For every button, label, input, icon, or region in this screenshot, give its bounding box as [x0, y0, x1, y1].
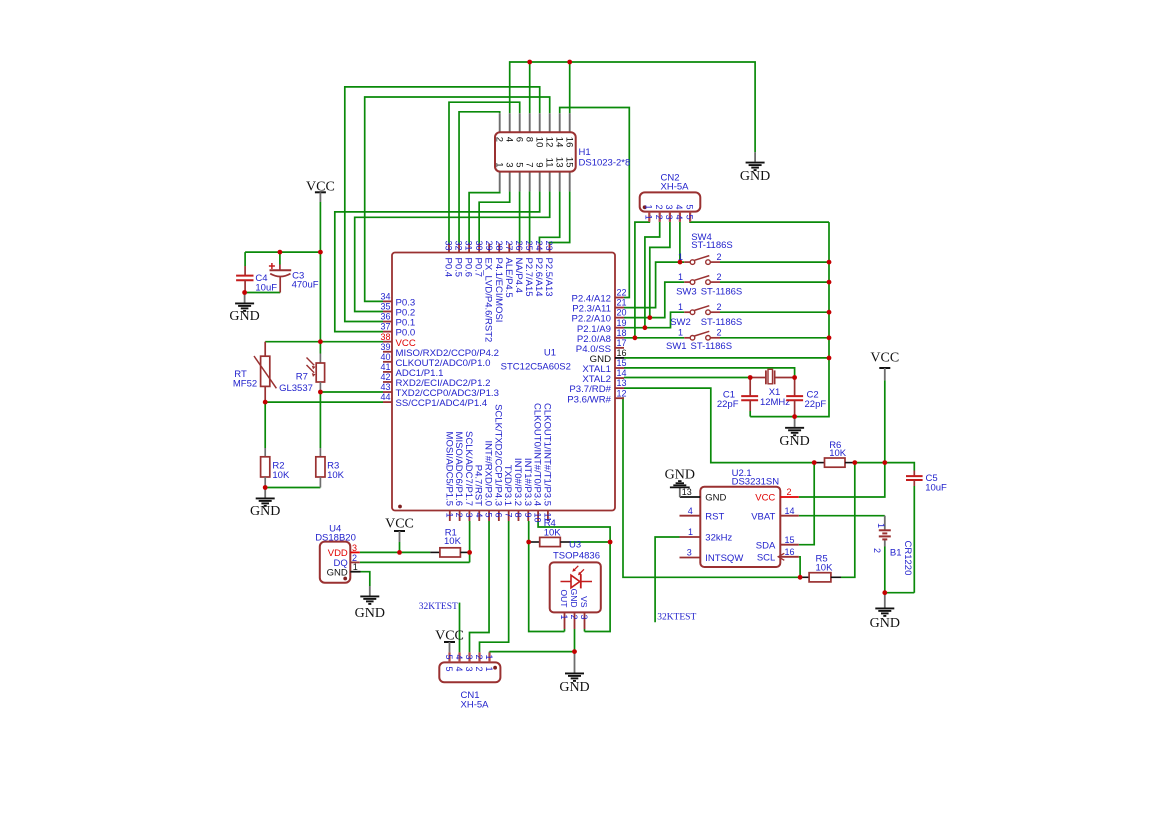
svg-text:9: 9 — [533, 162, 544, 167]
wire SW2 pin2 to bus — [720, 311, 829, 313]
wire VCC rail to C3 C4 — [245, 251, 320, 253]
U1 pin 36 P0.1 — [380, 312, 415, 329]
U1 pin 6 SCLK/TXD2/CCP1/P4.3 — [492, 404, 503, 521]
svg-text:MF52: MF52 — [233, 379, 257, 390]
U1 pin 43 TXD2/CCP0/ADC3/P1.3 — [380, 382, 498, 399]
wire U1 pin10 jog to R4 right — [538, 521, 610, 632]
svg-text:8: 8 — [523, 137, 534, 142]
svg-text:4: 4 — [454, 667, 464, 672]
svg-text:SW3: SW3 — [676, 287, 697, 298]
junction bus SW2 — [827, 310, 832, 315]
svg-text:3: 3 — [687, 548, 692, 558]
wire U4 DQ row — [360, 561, 470, 563]
svg-text:3: 3 — [579, 615, 589, 620]
svg-text:12: 12 — [543, 137, 554, 148]
svg-text:6: 6 — [493, 513, 503, 518]
junction VCC node — [882, 460, 887, 465]
svg-text:14: 14 — [553, 137, 564, 148]
junction R6 right/R5 — [852, 460, 857, 465]
svg-text:XH-5A: XH-5A — [661, 181, 690, 192]
svg-text:TSOP4836: TSOP4836 — [553, 551, 600, 562]
svg-text:31: 31 — [464, 241, 474, 251]
power VCC (CN1) — [435, 628, 464, 652]
svg-text:2: 2 — [716, 272, 721, 282]
ground (R2 R3) — [250, 488, 280, 520]
wire U1 pin20 to SW3 — [624, 282, 684, 318]
svg-text:9: 9 — [523, 513, 533, 518]
wire U1 pin14 XTAL2 to crystal left — [624, 377, 750, 379]
wire U3 GND down to CN1 pin1 node — [574, 629, 576, 652]
resistor R2 10K — [261, 448, 290, 488]
svg-text:4: 4 — [688, 506, 693, 516]
wire H1.9 to U1 pin37 — [335, 191, 540, 331]
svg-text:32: 32 — [454, 241, 464, 251]
U1 pin 42 RXD2/ECI/ADC2/P1.2 — [380, 372, 490, 389]
svg-text:5: 5 — [484, 513, 494, 518]
U2.1 pin 16 SCL — [757, 547, 799, 563]
svg-text:2: 2 — [716, 302, 721, 312]
junction H1.16/VCC rail — [567, 60, 572, 65]
svg-text:SCL: SCL — [757, 552, 775, 563]
U1 pin 18 P2.0/A8 — [577, 328, 627, 345]
wire U1 pin44 row to RT — [265, 401, 383, 403]
wire H1.3 to U1 pin30 — [479, 191, 510, 243]
U1 pin 35 P0.2 — [380, 302, 415, 319]
svg-text:10: 10 — [533, 513, 543, 523]
svg-text:2: 2 — [474, 667, 484, 672]
junction C4/C3 ground — [242, 290, 247, 295]
svg-text:2: 2 — [872, 548, 882, 553]
svg-text:10K: 10K — [444, 536, 462, 547]
wire H1.1 to U1 pin31 — [469, 191, 500, 243]
svg-text:14: 14 — [617, 368, 627, 378]
wire H1.10 to U1 pin36 — [345, 87, 540, 322]
svg-text:10: 10 — [533, 137, 544, 148]
svg-text:3: 3 — [464, 667, 474, 672]
U4 pin 3 VDD — [328, 543, 360, 559]
svg-text:3: 3 — [464, 513, 474, 518]
U2.1 pin 14 VBAT — [751, 506, 799, 522]
svg-text:12: 12 — [617, 388, 627, 398]
svg-text:10uF: 10uF — [255, 282, 277, 293]
H1 pin stubs top — [499, 113, 501, 132]
U1 pin1 marker — [398, 505, 402, 509]
junction R7/pin43 — [318, 390, 323, 395]
wire R2 bottom to R3 bottom — [265, 487, 320, 489]
svg-text:4: 4 — [674, 204, 684, 209]
wire SCL line to U1 pin12 — [623, 398, 800, 577]
resistor R3 10K — [316, 448, 345, 488]
svg-text:P2.6/A14: P2.6/A14 — [533, 258, 544, 297]
CN2 pin1 marker — [643, 205, 647, 209]
wire U1 pin18 to SW1 — [624, 337, 684, 339]
ground (crystal) — [779, 417, 809, 449]
svg-text:26: 26 — [514, 241, 524, 251]
svg-text:P3.6/WR#: P3.6/WR# — [567, 394, 611, 405]
svg-text:STC12C5A60S2: STC12C5A60S2 — [501, 362, 571, 373]
junction bus SW4 — [827, 260, 832, 265]
svg-text:1: 1 — [678, 328, 683, 338]
svg-text:DS1023-2*8: DS1023-2*8 — [579, 158, 631, 169]
U1 pin 24 P2.6/A14 — [533, 241, 544, 297]
U1 pin 17 P4.0/SS — [576, 338, 627, 355]
wire C1 bottom tail — [749, 411, 751, 417]
junction crystal gnd — [792, 414, 797, 419]
wire SW3 pin2 to bus — [720, 281, 829, 283]
wire CN1 pin1 to GND node — [490, 651, 575, 653]
wire U1 pin13 to R6 SDA node — [624, 388, 814, 463]
svg-text:5: 5 — [513, 162, 524, 167]
svg-text:P0.5: P0.5 — [453, 258, 464, 278]
junction VCC/VDD — [397, 550, 402, 555]
U1 pin 8 INT0#/P3.2 — [512, 458, 523, 521]
svg-text:32KTEST: 32KTEST — [419, 602, 458, 612]
U1 pin 9 INT1#/P3.3 — [522, 458, 533, 521]
CN2 pin 5 — [684, 204, 694, 221]
wire C5 bottom lead — [913, 486, 915, 593]
svg-text:34: 34 — [380, 292, 390, 302]
wire U1 pin9 to U3 OUT — [529, 521, 565, 632]
svg-text:3: 3 — [503, 162, 514, 167]
thermistor RT MF52 — [233, 342, 277, 402]
svg-text:INT#/RXD/P3.0: INT#/RXD/P3.0 — [483, 441, 494, 506]
svg-text:29: 29 — [484, 241, 494, 251]
U4 pin 2 DQ — [334, 553, 360, 569]
CN1 pin 3 — [464, 652, 474, 671]
svg-text:3: 3 — [352, 543, 357, 553]
svg-text:4: 4 — [474, 513, 484, 518]
svg-text:GND: GND — [779, 434, 809, 449]
svg-text:28: 28 — [494, 241, 504, 251]
svg-text:16: 16 — [563, 137, 574, 148]
wire RT bottom to R2 — [264, 402, 266, 448]
svg-text:16: 16 — [785, 547, 795, 557]
svg-text:44: 44 — [380, 392, 390, 402]
power VCC (U4/R1) — [385, 517, 414, 543]
svg-text:4: 4 — [454, 655, 464, 660]
switch SW1 ST-1186S — [678, 328, 722, 341]
svg-text:1: 1 — [493, 162, 504, 167]
svg-text:MISO/ADC6/P1.6: MISO/ADC6/P1.6 — [453, 432, 464, 506]
U2.1 pin 15 SDA — [756, 535, 799, 551]
header H1 DS1023-2*8 body — [495, 132, 576, 171]
wire U1 pin16 GND row to bus — [624, 357, 829, 359]
svg-text:10uF: 10uF — [925, 482, 947, 493]
svg-text:39: 39 — [380, 342, 390, 352]
U3 pin 1 OUT — [559, 590, 569, 629]
svg-text:2: 2 — [474, 655, 484, 660]
wire C3 bottom to GND — [245, 292, 281, 294]
svg-text:OUT: OUT — [559, 590, 569, 608]
svg-text:GND: GND — [327, 567, 348, 578]
svg-text:35: 35 — [380, 302, 390, 312]
svg-text:SW2: SW2 — [670, 317, 691, 328]
U1 pin 10 CLKOUT0/INT#/T0/P3.4 — [532, 403, 543, 522]
svg-text:GND: GND — [229, 309, 259, 324]
svg-text:5: 5 — [444, 655, 454, 660]
U1 pin 3 SCLK/ADC7/P1.7 — [463, 431, 474, 521]
wire H1.2 to U1 pin32 — [459, 112, 500, 244]
svg-text:22pF: 22pF — [805, 399, 827, 410]
U1 pin 7 TXD/P3.1 — [502, 465, 513, 521]
CN1 pin 2 — [474, 652, 484, 671]
wire H1.5 to U1 pin26 — [519, 191, 521, 243]
svg-text:5: 5 — [444, 667, 454, 672]
svg-text:1: 1 — [678, 272, 683, 282]
wire U1 pin15 XTAL1 to crystal right — [624, 368, 795, 378]
IC U2.1 DS3231SN body — [700, 487, 780, 567]
U1 pin 2 MISO/ADC6/P1.6 — [453, 432, 464, 521]
wire U1 pin43 row to R7 — [320, 391, 383, 393]
wire VCC left vertical to pin38 net — [319, 202, 321, 354]
svg-text:1: 1 — [644, 204, 654, 209]
wire C4 top lead — [244, 252, 246, 266]
capacitor C4 10uF — [236, 266, 277, 293]
connector CN2 XH-5A body — [640, 192, 701, 211]
wire R6 right node down to R5 right — [841, 463, 855, 578]
wire U4 GND down — [361, 572, 370, 586]
ground (U4) — [355, 586, 385, 621]
wire CN2 pin1 down to pin18 net — [635, 222, 649, 338]
U1 pin 14 XTAL2 — [582, 368, 626, 385]
U1 pin 26 NA/P4.4 — [513, 241, 524, 293]
svg-text:38: 38 — [380, 332, 390, 342]
svg-text:20: 20 — [617, 308, 627, 318]
svg-text:19: 19 — [617, 318, 627, 328]
U1 pin 13 P3.7/RD# — [569, 378, 626, 395]
photoresistor R7 GL3537 — [279, 354, 325, 394]
svg-text:VCC: VCC — [385, 517, 414, 532]
CN1 pin 1 — [484, 652, 494, 671]
svg-text:16: 16 — [617, 348, 627, 358]
resistor R1 10K — [430, 528, 469, 557]
svg-text:VCC: VCC — [755, 493, 775, 504]
svg-text:SDA: SDA — [756, 540, 776, 551]
svg-text:15: 15 — [617, 358, 627, 368]
CN1 pin1 marker — [493, 666, 497, 670]
U3 photodiode symbol — [561, 566, 593, 589]
CN2 pin 1 — [644, 204, 654, 221]
svg-text:ST-1186S: ST-1186S — [701, 287, 743, 298]
wire CN2 pin5 to right bus — [690, 221, 829, 223]
svg-text:TXD/P3.1: TXD/P3.1 — [502, 465, 513, 506]
svg-text:INT0#/P3.2: INT0#/P3.2 — [512, 458, 523, 506]
svg-text:23: 23 — [544, 241, 554, 251]
wire H1.13 to U1 pin24 — [539, 191, 559, 243]
svg-text:1: 1 — [353, 562, 358, 572]
wire H1.7 to U1 pin25 — [529, 191, 531, 243]
U1 pin 11 CLKOUT1/INT#/T1/P3.5 — [541, 403, 552, 522]
svg-text:RST: RST — [705, 511, 724, 522]
U2.1 pin 2 VCC — [755, 487, 799, 503]
switch SW3 ST-1186S — [678, 272, 722, 285]
svg-text:10K: 10K — [327, 470, 345, 481]
wire 32KTEST to CN1 pin4 — [459, 603, 461, 653]
U1 pin 41 ADC1/P1.1 — [380, 362, 443, 379]
svg-text:43: 43 — [380, 382, 390, 392]
svg-text:3: 3 — [664, 215, 674, 220]
junction VCC pin38 — [318, 339, 323, 344]
ground (U3/CN1) — [559, 652, 589, 695]
svg-text:P4.7/RST: P4.7/RST — [473, 465, 484, 506]
U1 pin 38 VCC — [380, 332, 415, 349]
svg-text:ALE/P4.5: ALE/P4.5 — [503, 258, 514, 298]
junction bus SW1 — [827, 335, 832, 340]
junction RT/pin44 — [263, 400, 268, 405]
svg-text:B1: B1 — [890, 548, 902, 559]
svg-text:SS/CCP1/ADC4/P1.4: SS/CCP1/ADC4/P1.4 — [396, 398, 488, 409]
svg-text:36: 36 — [380, 312, 390, 322]
svg-text:13: 13 — [553, 157, 564, 168]
svg-text:ST-1186S: ST-1186S — [691, 240, 733, 251]
U2.1 pin 4 RST — [680, 506, 725, 522]
U3 pin 2 GND — [569, 589, 579, 629]
svg-text:32kHz: 32kHz — [705, 533, 732, 544]
ground (battery) — [870, 593, 900, 631]
capacitor C2 22pF — [786, 378, 826, 417]
wire U3 VS stub tail — [584, 629, 586, 632]
svg-text:37: 37 — [380, 322, 390, 332]
svg-text:13: 13 — [682, 487, 692, 497]
svg-text:U1: U1 — [544, 348, 556, 359]
wire U2.1 SCL to R5 left — [799, 557, 800, 578]
svg-text:CLKOUT1/INT#/T1/P3.5: CLKOUT1/INT#/T1/P3.5 — [541, 403, 552, 506]
U1 pin 37 P0.0 — [380, 322, 415, 339]
U1 pin 40 CLKOUT2/ADC0/P1.0 — [380, 352, 490, 369]
svg-text:GND: GND — [665, 468, 695, 483]
wire U2.1 32kHz to 32KTEST — [655, 537, 679, 622]
svg-text:R7: R7 — [296, 372, 308, 383]
svg-text:32KTEST: 32KTEST — [657, 612, 696, 622]
junction CN2.2/pin19 — [643, 325, 648, 330]
ground (U2.1 pin13) inverted symbol — [665, 468, 695, 488]
svg-text:EX_LVD/P4.6/RST2: EX_LVD/P4.6/RST2 — [483, 258, 494, 343]
svg-text:1: 1 — [678, 302, 683, 312]
svg-text:CR1220: CR1220 — [902, 541, 913, 576]
wire right bus down to crystal ground rail — [750, 222, 829, 417]
svg-text:22: 22 — [617, 288, 627, 298]
wire H1 pin16 riser — [569, 62, 571, 113]
svg-text:24: 24 — [534, 241, 544, 251]
wire CN2 pin2 down to pin19 net — [645, 222, 660, 328]
U1 pin 4 P4.7/RST — [473, 465, 484, 521]
svg-text:GND: GND — [250, 504, 280, 519]
U1 pin 29 EX_LVD/P4.6/RST2 — [483, 241, 494, 343]
svg-text:7: 7 — [503, 513, 513, 518]
U1 pin 19 P2.1/A9 — [577, 318, 627, 335]
wire H1.15 to U1 pin23 — [550, 191, 570, 243]
svg-text:GND: GND — [355, 606, 385, 621]
U1 pin 15 XTAL1 — [582, 358, 626, 375]
wire battery bottom to GND — [884, 547, 886, 593]
svg-text:CLKOUT0/INT#/T0/P3.4: CLKOUT0/INT#/T0/P3.4 — [532, 403, 543, 506]
U1 pin 21 P2.3/A11 — [572, 298, 626, 315]
switch SW4 ST-1186S — [678, 252, 722, 265]
wire R4 right lead to node — [571, 541, 611, 543]
svg-text:10K: 10K — [816, 562, 834, 573]
connector CN1 XH-5A body — [439, 662, 500, 682]
wire CN1 pin1 stub tail — [489, 651, 491, 654]
resistor R4 10K — [529, 518, 571, 546]
junction R1/DQ/pin3 — [467, 550, 472, 555]
U1 pin 20 P2.2/A10 — [572, 308, 627, 325]
svg-text:10K: 10K — [272, 470, 290, 481]
svg-text:5: 5 — [684, 204, 694, 209]
svg-text:13: 13 — [617, 378, 627, 388]
wire H1.14 to U1 pin22 — [560, 108, 630, 298]
U2.1 pin 1 32kHz — [680, 527, 733, 543]
svg-text:15: 15 — [563, 157, 574, 168]
crystal X1 12MHz — [750, 369, 794, 408]
wire U2.1 VBAT to battery — [799, 515, 885, 517]
svg-text:XH-5A: XH-5A — [461, 700, 490, 711]
svg-text:3: 3 — [664, 204, 674, 209]
junction CN2.3/pin20 — [647, 315, 652, 320]
svg-text:GND: GND — [569, 589, 579, 608]
CN2 pin 4 — [674, 204, 684, 221]
U1 pin 31 P0.6 — [463, 241, 474, 278]
U4 pin 1 GND — [327, 562, 361, 578]
U1 pin 5 INT#/RXD/P3.0 — [483, 441, 494, 521]
junction R4 right — [608, 540, 613, 545]
svg-text:40: 40 — [380, 352, 390, 362]
capacitor C1 22pF — [717, 378, 758, 412]
capacitor C5 10uF — [906, 471, 947, 494]
svg-text:1: 1 — [484, 667, 494, 672]
junction XTAL2/C1 — [748, 375, 753, 380]
svg-text:P2.7/A15: P2.7/A15 — [523, 258, 534, 297]
wire H1.12 to U1 pin34 — [365, 97, 550, 301]
battery B1 top lead — [884, 516, 886, 530]
svg-text:1: 1 — [876, 523, 886, 528]
svg-text:MOSI/ADC5/P1.5: MOSI/ADC5/P1.5 — [443, 432, 454, 506]
svg-text:470uF: 470uF — [292, 280, 319, 291]
svg-text:ST-1186S: ST-1186S — [691, 341, 733, 352]
svg-text:1: 1 — [444, 513, 454, 518]
wire U1 pin38 VCC row — [265, 341, 383, 343]
H1 pin stubs bottom — [499, 172, 501, 192]
svg-text:30: 30 — [474, 241, 484, 251]
wire SW1 pin2 to bus — [720, 337, 829, 339]
svg-text:11: 11 — [543, 158, 554, 168]
svg-text:10K: 10K — [829, 448, 847, 459]
U1 pin 30 P0.7 — [473, 241, 484, 278]
junction VCC/C3C4 rail — [318, 250, 323, 255]
svg-text:33: 33 — [444, 241, 454, 251]
wire U4 VDD row through VCC to R1 — [360, 551, 431, 553]
svg-text:VS: VS — [579, 596, 589, 608]
U4 pin1 marker — [343, 577, 347, 581]
IC U3 TSOP4836 body — [550, 562, 601, 612]
svg-text:14: 14 — [785, 506, 795, 516]
junction H1.8/VCC rail — [527, 60, 532, 65]
power VCC (right) — [870, 351, 899, 381]
svg-text:SCLK/ADC7/P1.7: SCLK/ADC7/P1.7 — [463, 431, 474, 506]
svg-text:25: 25 — [524, 241, 534, 251]
svg-text:1: 1 — [484, 655, 494, 660]
wire CN2 pin3 down to pin20 net — [650, 222, 670, 318]
wire VCC riser — [884, 380, 886, 462]
svg-text:2: 2 — [716, 252, 721, 262]
svg-text:VBAT: VBAT — [751, 511, 775, 522]
wire R6 right to VCC node — [855, 462, 885, 464]
U1 pin 27 ALE/P4.5 — [503, 241, 514, 298]
svg-text:2: 2 — [716, 328, 721, 338]
svg-text:4: 4 — [503, 137, 514, 142]
junction U3 gnd/CN1.1 — [572, 649, 577, 654]
junction battery gnd — [882, 590, 887, 595]
svg-text:27: 27 — [504, 241, 514, 251]
